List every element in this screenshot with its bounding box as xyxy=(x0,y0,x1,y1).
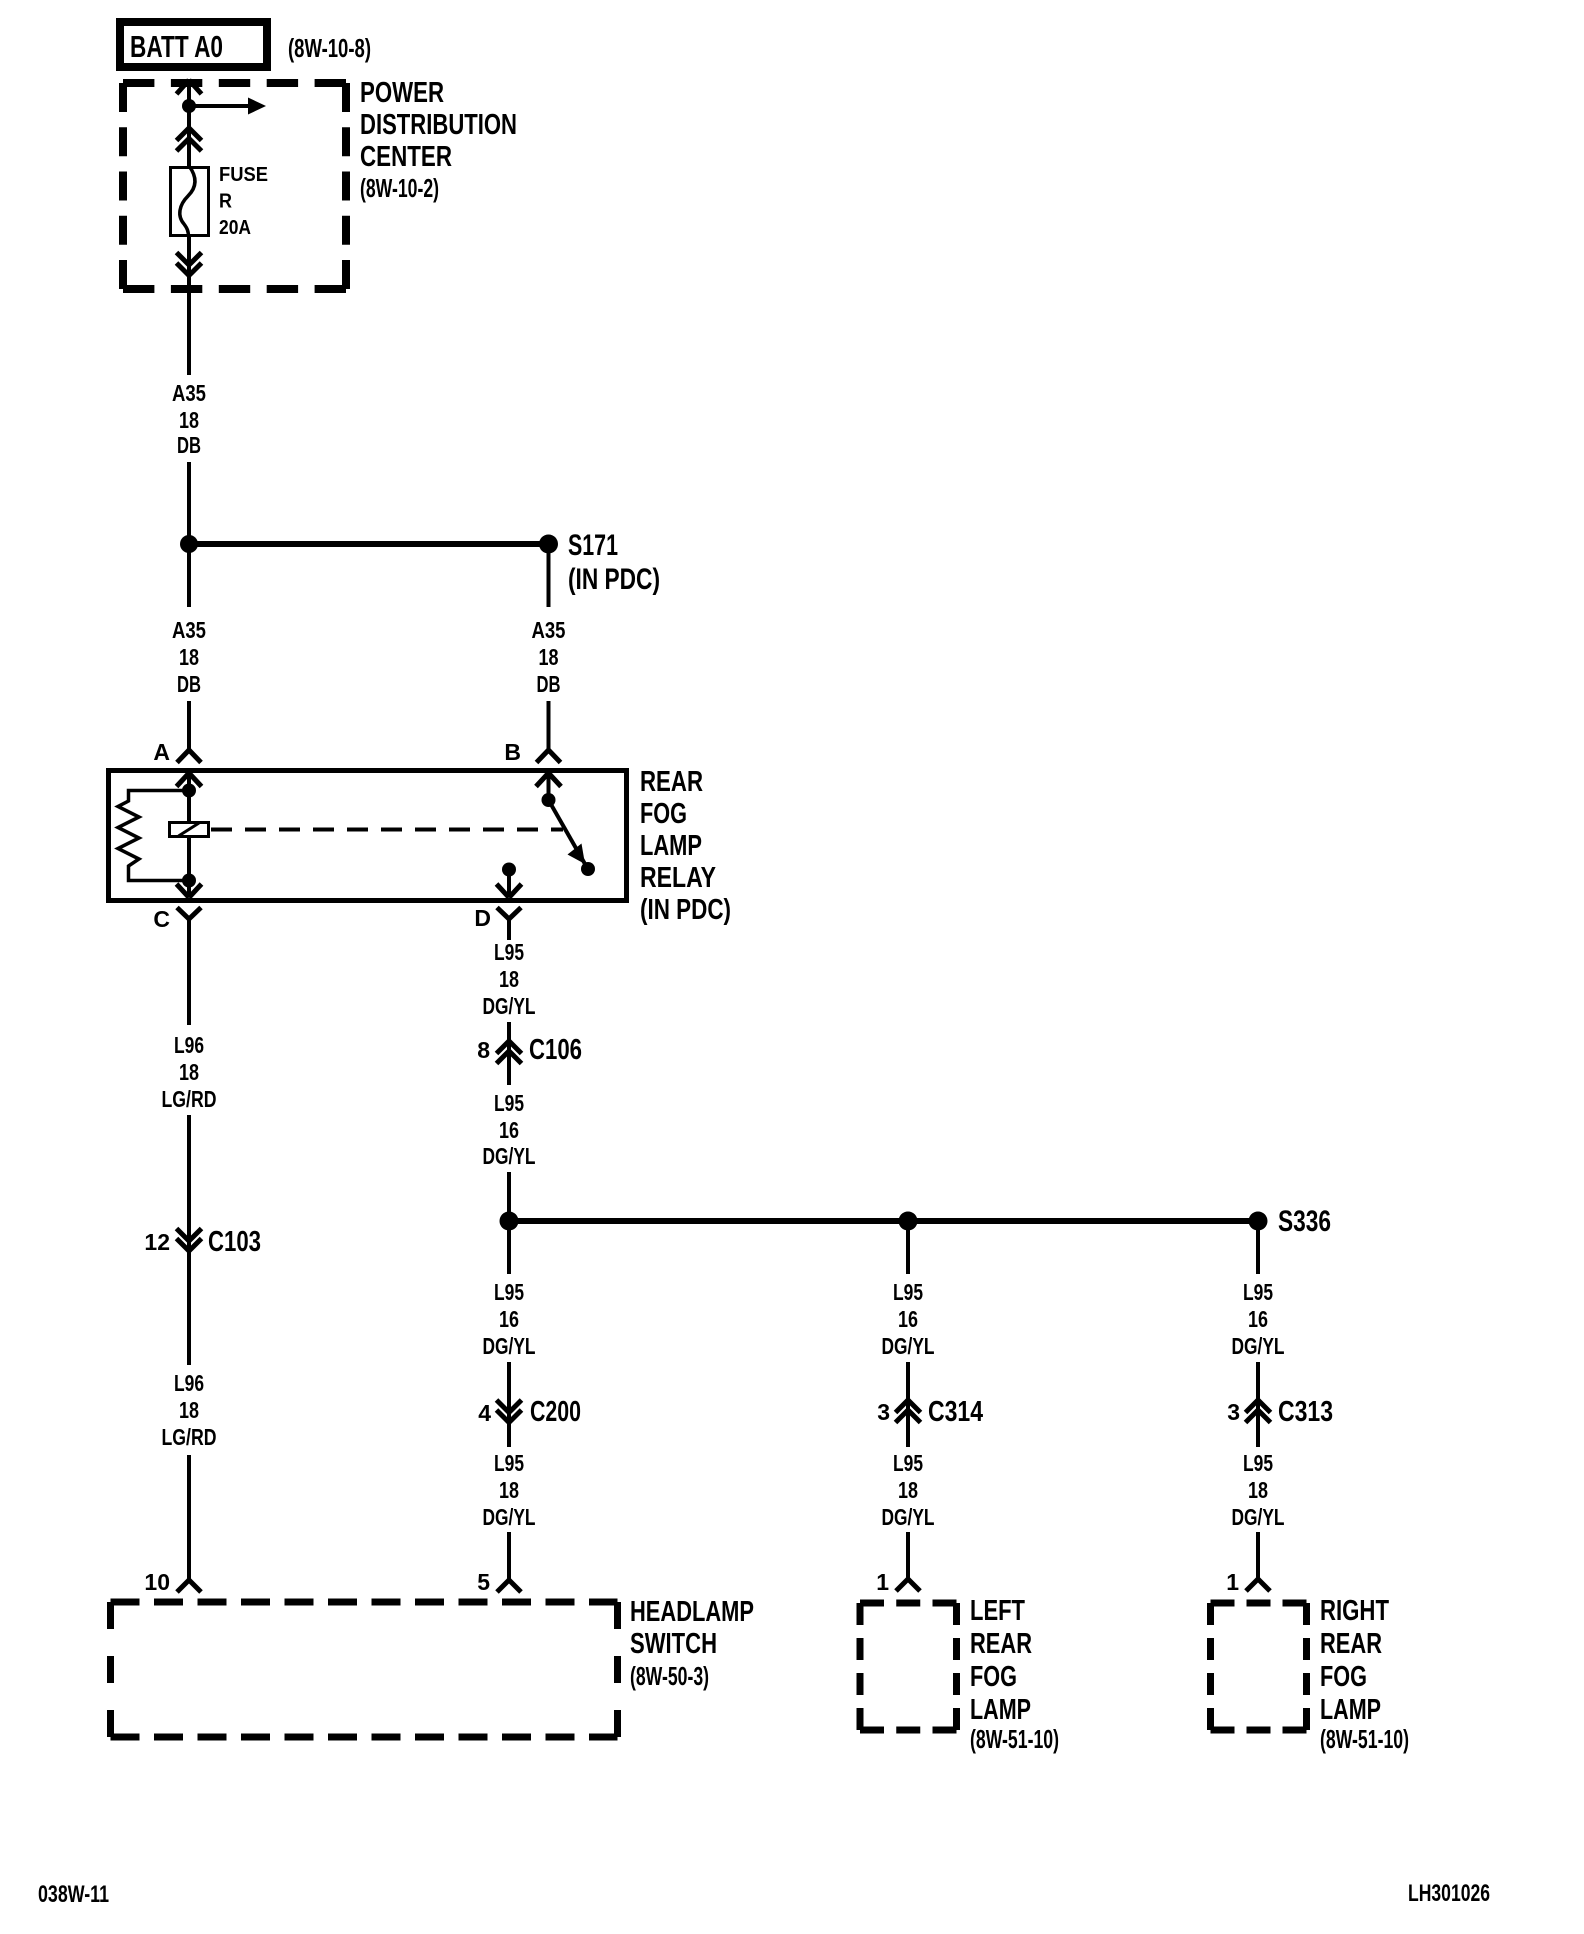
connector fork pin 1 right xyxy=(1246,1579,1270,1591)
connector D fork xyxy=(497,908,521,938)
svg-text:18: 18 xyxy=(179,644,199,670)
svg-text:16: 16 xyxy=(1248,1306,1268,1332)
wire label L95 16 DG/YL mid xyxy=(483,1279,536,1359)
connector C313 double chevron xyxy=(1246,1400,1271,1423)
svg-text:A35: A35 xyxy=(172,617,206,643)
wire label L95 18 DG/YL left fog lower xyxy=(882,1450,935,1530)
svg-text:(IN PDC): (IN PDC) xyxy=(640,894,731,926)
svg-text:C103: C103 xyxy=(208,1226,261,1258)
wire through connector C103 xyxy=(187,1115,191,1365)
wire label L96 18 LG/RD lower xyxy=(162,1370,217,1450)
wire label L96 18 LG/RD xyxy=(162,1032,217,1112)
connector A fork xyxy=(177,750,201,763)
svg-text:RIGHT: RIGHT xyxy=(1320,1595,1389,1627)
svg-text:18: 18 xyxy=(898,1477,918,1503)
connector C106 double chevron xyxy=(497,1041,522,1064)
svg-text:18: 18 xyxy=(179,1397,199,1423)
wire label L95 16 DG/YL right fog xyxy=(1232,1279,1285,1359)
svg-text:038W-11: 038W-11 xyxy=(38,1881,109,1908)
svg-text:L95: L95 xyxy=(1243,1279,1273,1305)
svg-text:D: D xyxy=(474,905,491,931)
relay coil bottom node dot xyxy=(182,874,196,888)
svg-text:16: 16 xyxy=(898,1306,918,1332)
splice S171 dot xyxy=(539,535,558,554)
connector C314 double chevron xyxy=(896,1400,921,1423)
svg-text:S171: S171 xyxy=(568,529,618,562)
svg-text:L95: L95 xyxy=(494,1450,524,1476)
relay pin B male arrow xyxy=(536,773,561,800)
wire relay C toward C103 xyxy=(187,938,191,1025)
svg-text:DISTRIBUTION: DISTRIBUTION xyxy=(360,109,517,141)
svg-text:REAR: REAR xyxy=(1320,1628,1382,1660)
svg-text:L95: L95 xyxy=(494,939,524,965)
wire label A35 18 DB left branch xyxy=(172,617,206,697)
svg-text:DB: DB xyxy=(537,671,561,697)
svg-text:FOG: FOG xyxy=(970,1661,1017,1693)
headlamp switch dashed box xyxy=(111,1602,618,1737)
junction dot at left fog branch xyxy=(899,1212,918,1231)
svg-text:(8W-10-2): (8W-10-2) xyxy=(360,173,439,203)
relay resistor branch xyxy=(118,791,189,881)
svg-text:8: 8 xyxy=(477,1037,490,1063)
svg-text:16: 16 xyxy=(499,1117,519,1143)
left rear fog lamp dashed box xyxy=(860,1603,957,1730)
right rear fog lamp dashed box xyxy=(1211,1603,1307,1730)
svg-text:LAMP: LAMP xyxy=(640,830,702,862)
svg-text:LG/RD: LG/RD xyxy=(162,1424,217,1450)
svg-text:18: 18 xyxy=(539,644,559,670)
svg-text:DG/YL: DG/YL xyxy=(882,1333,935,1359)
wire to right rear fog lamp pin 1 xyxy=(1256,1532,1260,1579)
svg-text:DG/YL: DG/YL xyxy=(483,1333,536,1359)
svg-text:REAR: REAR xyxy=(970,1628,1032,1660)
svg-text:(8W-51-10): (8W-51-10) xyxy=(970,1724,1059,1754)
wire through connector C314 xyxy=(906,1362,910,1447)
svg-text:(8W-51-10): (8W-51-10) xyxy=(1320,1724,1409,1754)
svg-text:HEADLAMP: HEADLAMP xyxy=(630,1596,754,1628)
svg-text:DG/YL: DG/YL xyxy=(483,1504,536,1530)
wire through connector C313 xyxy=(1256,1362,1260,1447)
connector fork pin 1 left xyxy=(896,1579,920,1591)
svg-text:FOG: FOG xyxy=(1320,1661,1367,1693)
splice S171 label xyxy=(568,529,660,596)
wire to splice S171 xyxy=(187,462,191,607)
svg-text:4: 4 xyxy=(478,1400,491,1426)
double chevron connector above fuse xyxy=(177,128,202,151)
svg-text:10: 10 xyxy=(144,1569,170,1595)
svg-text:A35: A35 xyxy=(172,380,206,406)
svg-text:18: 18 xyxy=(499,966,519,992)
svg-text:12: 12 xyxy=(144,1229,170,1255)
svg-text:L95: L95 xyxy=(893,1279,923,1305)
relay label xyxy=(640,766,731,926)
power distribution center dashed box xyxy=(123,83,346,289)
svg-text:DB: DB xyxy=(177,432,201,458)
wire to splice S336 xyxy=(507,1172,511,1221)
wire label L95 16 DG/YL left fog xyxy=(882,1279,935,1359)
svg-text:C106: C106 xyxy=(529,1034,582,1066)
double chevron connector at PDC output xyxy=(177,253,202,276)
svg-text:FOG: FOG xyxy=(640,798,687,830)
svg-text:S336: S336 xyxy=(1278,1205,1331,1238)
svg-text:(8W-10-8): (8W-10-8) xyxy=(288,33,371,63)
svg-text:18: 18 xyxy=(179,407,199,433)
svg-text:DB: DB xyxy=(177,671,201,697)
svg-text:B: B xyxy=(504,739,521,765)
connector fork pin 10 xyxy=(177,1580,201,1592)
junction dot at mid column xyxy=(500,1212,519,1231)
wire relay D down xyxy=(507,937,511,940)
wire mid column below splice xyxy=(507,1221,511,1274)
wire through connector C106 xyxy=(507,1022,511,1085)
svg-text:5: 5 xyxy=(477,1569,490,1595)
wire left fog branch below splice xyxy=(906,1221,910,1274)
svg-text:1: 1 xyxy=(876,1569,889,1595)
svg-text:A35: A35 xyxy=(532,617,566,643)
wire S171 to relay pin B xyxy=(547,544,551,607)
wire BATT A0 feed into PDC xyxy=(187,80,191,166)
svg-text:A: A xyxy=(153,739,170,765)
relay control dashed link xyxy=(211,828,563,832)
fuse label xyxy=(219,164,268,239)
splice S336 dot xyxy=(1249,1212,1268,1231)
svg-text:(IN PDC): (IN PDC) xyxy=(568,563,660,596)
svg-text:DG/YL: DG/YL xyxy=(483,993,536,1019)
arrow to other circuits xyxy=(189,98,266,115)
svg-text:L95: L95 xyxy=(494,1279,524,1305)
relay coil top node dot xyxy=(182,784,196,798)
svg-text:SWITCH: SWITCH xyxy=(630,1628,717,1660)
connector C103 double chevron xyxy=(177,1229,202,1252)
headlamp switch label xyxy=(630,1596,754,1691)
relay switch contact dot xyxy=(581,862,595,876)
svg-text:L95: L95 xyxy=(1243,1450,1273,1476)
svg-text:LH301026: LH301026 xyxy=(1408,1880,1490,1907)
svg-text:FUSE: FUSE xyxy=(219,164,268,186)
wire label L95 18 DG/YL mid lower xyxy=(483,1450,536,1530)
svg-text:C313: C313 xyxy=(1278,1396,1333,1428)
svg-text:3: 3 xyxy=(1227,1399,1240,1425)
right rear fog lamp label xyxy=(1320,1595,1409,1754)
wire to relay pin A xyxy=(187,701,191,750)
svg-text:DG/YL: DG/YL xyxy=(483,1143,536,1169)
svg-text:C314: C314 xyxy=(928,1396,983,1428)
wire label L95 16 DG/YL xyxy=(483,1090,536,1169)
svg-text:LAMP: LAMP xyxy=(970,1694,1031,1726)
connector C fork xyxy=(177,908,201,939)
wire right fog branch below splice xyxy=(1256,1221,1260,1274)
svg-text:18: 18 xyxy=(499,1477,519,1503)
relay switch pivot dot xyxy=(542,793,556,807)
svg-text:(8W-50-3): (8W-50-3) xyxy=(630,1661,709,1691)
wire label L95 18 DG/YL xyxy=(483,939,536,1019)
junction dot in PDC xyxy=(182,99,196,113)
svg-text:REAR: REAR xyxy=(640,766,703,798)
svg-text:L95: L95 xyxy=(494,1090,524,1116)
wire label L95 18 DG/YL right fog lower xyxy=(1232,1450,1285,1530)
splice S336 bus wire xyxy=(509,1218,1258,1224)
svg-text:C200: C200 xyxy=(530,1396,581,1428)
svg-text:DG/YL: DG/YL xyxy=(1232,1504,1285,1530)
svg-text:L96: L96 xyxy=(174,1370,204,1396)
svg-text:18: 18 xyxy=(179,1059,199,1085)
svg-text:RELAY: RELAY xyxy=(640,862,716,894)
relay pin D male arrow xyxy=(497,870,522,898)
wire to headlamp switch pin 5 xyxy=(507,1532,511,1580)
svg-text:DG/YL: DG/YL xyxy=(882,1504,935,1530)
bus wire of splice S171 xyxy=(189,541,549,547)
svg-text:L95: L95 xyxy=(893,1450,923,1476)
relay pin D node dot xyxy=(502,863,516,877)
svg-text:LAMP: LAMP xyxy=(1320,1694,1381,1726)
power distribution center label xyxy=(360,77,517,203)
relay switch lever xyxy=(549,800,586,864)
connector C200 double chevron xyxy=(497,1400,522,1423)
svg-text:16: 16 xyxy=(499,1306,519,1332)
svg-text:R: R xyxy=(219,191,232,213)
wire to left rear fog lamp pin 1 xyxy=(906,1532,910,1579)
svg-text:20A: 20A xyxy=(219,217,251,239)
svg-text:POWER: POWER xyxy=(360,77,444,109)
svg-text:LEFT: LEFT xyxy=(970,1595,1025,1627)
wire below fuse leaving PDC xyxy=(187,237,191,375)
svg-text:LG/RD: LG/RD xyxy=(162,1086,217,1112)
connector arrow at PDC top xyxy=(177,80,202,94)
svg-text:3: 3 xyxy=(877,1399,890,1425)
svg-text:C: C xyxy=(153,906,170,932)
relay coil xyxy=(170,791,209,881)
connector fork pin 5 xyxy=(497,1580,521,1592)
wire through connector C200 xyxy=(507,1362,511,1447)
BATT A0 box xyxy=(120,22,267,67)
wire label A35 18 DB right branch xyxy=(532,617,566,697)
junction dot left of S171 xyxy=(180,535,198,553)
relay pin A male arrow xyxy=(177,773,202,791)
connector B fork xyxy=(537,750,561,763)
relay pin C male arrow xyxy=(177,881,202,898)
wire to headlamp switch pin 10 xyxy=(187,1455,191,1580)
svg-text:CENTER: CENTER xyxy=(360,141,452,173)
wire to relay pin B xyxy=(547,701,551,750)
fuse R 20A xyxy=(171,166,209,237)
svg-text:L96: L96 xyxy=(174,1032,204,1058)
wire label A35 18 DB xyxy=(172,380,206,458)
svg-text:18: 18 xyxy=(1248,1477,1268,1503)
svg-text:DG/YL: DG/YL xyxy=(1232,1333,1285,1359)
svg-text:BATT A0: BATT A0 xyxy=(130,29,223,64)
left rear fog lamp label xyxy=(970,1595,1059,1754)
rear fog lamp relay box xyxy=(109,771,627,901)
svg-text:1: 1 xyxy=(1226,1569,1239,1595)
